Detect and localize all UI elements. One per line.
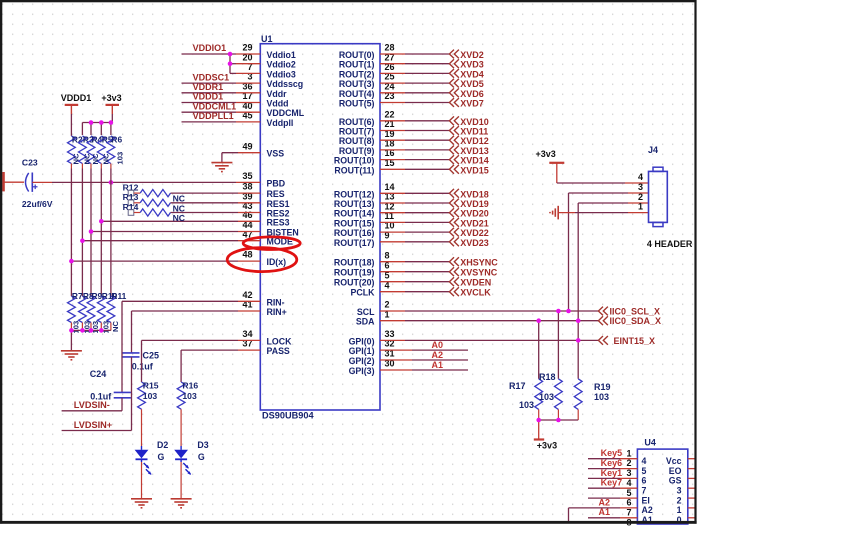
IC U1 DS90UB904 (242, 34, 394, 421)
wire +3v3 rail (111, 114, 113, 123)
svg-text:GPI(1): GPI(1) (349, 346, 375, 356)
svg-text:EO: EO (669, 466, 682, 476)
svg-text:G: G (158, 452, 165, 462)
off-page connector XVD20 (449, 208, 454, 217)
wire XVD23 (380, 241, 405, 243)
resistor R10 (97, 296, 105, 322)
ground at VSS (211, 162, 232, 164)
svg-text:R19: R19 (594, 382, 611, 392)
svg-text:35: 35 (242, 171, 252, 181)
off-page connector XVDEN (449, 277, 454, 286)
resistor R18 (555, 379, 563, 410)
svg-text:14: 14 (385, 182, 395, 192)
svg-text:ROUT(9): ROUT(9) (339, 146, 375, 156)
off-page connector XVD23 (449, 237, 454, 246)
wire BISTEN (91, 231, 238, 233)
ground below D2 (131, 498, 152, 500)
wire VDDR1 to U1 (182, 92, 237, 94)
wire VSS (222, 152, 238, 154)
junction bottom rail (89, 328, 94, 333)
connector J4 (649, 171, 668, 222)
junction rail/R4 (89, 120, 94, 125)
svg-text:A2: A2 (599, 497, 611, 507)
wire VDDCML1 to U1 (182, 111, 237, 113)
off-page connector XVD6 (449, 88, 454, 97)
svg-text:Vddpll: Vddpll (267, 118, 294, 128)
svg-text:GPI(0): GPI(0) (349, 336, 375, 346)
svg-text:VDDD1: VDDD1 (61, 93, 92, 103)
junction bottom rail (80, 328, 85, 333)
junction SDA/J4pin2 (576, 318, 581, 323)
svg-text:ROUT(16): ROUT(16) (334, 228, 375, 238)
svg-text:ROUT(1): ROUT(1) (339, 60, 375, 70)
svg-text:A1: A1 (432, 360, 444, 370)
svg-text:RES1: RES1 (267, 199, 290, 209)
svg-text:RES: RES (267, 189, 285, 199)
svg-text:6: 6 (642, 476, 647, 486)
wire column R6/PBD (110, 169, 112, 297)
svg-text:29: 29 (242, 43, 252, 53)
svg-text:6: 6 (626, 498, 631, 508)
junction MODE/column (80, 238, 85, 243)
svg-text:2: 2 (677, 495, 682, 505)
svg-text:XVD3: XVD3 (460, 60, 484, 70)
junction EINT/R19 (576, 338, 581, 343)
wire XVD7 (380, 102, 405, 104)
svg-text:Vddd: Vddd (267, 99, 289, 109)
svg-text:XVDEN: XVDEN (460, 278, 491, 288)
svg-text:28: 28 (385, 43, 395, 53)
svg-text:1: 1 (677, 505, 682, 515)
resistor R6 (107, 136, 115, 164)
resistor R13 (134, 202, 140, 204)
wire LOCK (238, 339, 260, 341)
svg-text:C24: C24 (90, 369, 107, 379)
svg-text:33: 33 (385, 329, 395, 339)
junction rail/R5 (99, 120, 104, 125)
wire MODE (82, 240, 238, 242)
resistor R16 (177, 382, 185, 409)
resistor R7 (68, 296, 76, 322)
svg-text:VDDD1: VDDD1 (193, 92, 224, 102)
resistor R4 (87, 136, 95, 164)
svg-text:103: 103 (116, 152, 125, 165)
junction VDDIO1/Vddio2 (228, 61, 233, 66)
wire VDDPLL1 to U1 (182, 121, 237, 123)
svg-text:Key5: Key5 (601, 448, 623, 458)
svg-text:XVD15: XVD15 (460, 165, 489, 175)
junction ID(x)/column (69, 259, 74, 264)
wire RIN+ (238, 310, 260, 312)
wire U4 pin5 (588, 497, 620, 499)
svg-text:+3v3: +3v3 (536, 149, 556, 159)
svg-text:XVD5: XVD5 (460, 79, 484, 89)
svg-text:RES3: RES3 (267, 217, 290, 227)
svg-text:IIC0_SDA_X: IIC0_SDA_X (610, 316, 662, 326)
wire column R4/BISTEN (90, 169, 92, 297)
sheet border (0, 0, 697, 524)
svg-text:Vddio3: Vddio3 (267, 69, 296, 79)
svg-text:ID(x): ID(x) (267, 257, 287, 267)
off-page connector XVSYNC (449, 267, 454, 276)
off-page connector XVD2 (449, 50, 454, 59)
svg-text:ROUT(19): ROUT(19) (334, 268, 375, 278)
svg-text:5: 5 (626, 488, 631, 498)
wire A2 feed (569, 507, 621, 509)
svg-text:PASS: PASS (267, 346, 290, 356)
wire J4 pin1 to ground (558, 212, 575, 214)
svg-text:NC: NC (72, 153, 81, 164)
svg-text:46: 46 (242, 210, 252, 220)
svg-text:5: 5 (642, 466, 647, 476)
svg-text:XVD13: XVD13 (460, 146, 489, 156)
terminal pad of R14 (128, 210, 134, 216)
svg-text:ROUT(18): ROUT(18) (334, 258, 375, 268)
wire SDA to R17 (538, 321, 540, 379)
off-page connector XVD12 (449, 136, 454, 145)
svg-text:VDDPLL1: VDDPLL1 (193, 111, 234, 121)
off-page connector XVD19 (449, 199, 454, 208)
power +3v3 symbol (J4) (549, 162, 564, 164)
svg-text:XVD12: XVD12 (460, 136, 489, 146)
wire PBD (32, 181, 52, 183)
svg-text:GPI(2): GPI(2) (349, 356, 375, 366)
wire XVD15 (380, 168, 405, 170)
power +3v3 symbol (below R17) (534, 438, 544, 440)
svg-text:VDDSC1: VDDSC1 (193, 72, 230, 82)
svg-text:103: 103 (143, 391, 158, 401)
svg-text:XVD4: XVD4 (460, 69, 484, 79)
wire XVD5 (380, 82, 405, 84)
svg-text:LOCK: LOCK (267, 336, 293, 346)
svg-text:VDDIO1: VDDIO1 (193, 43, 227, 53)
resistor R12 (134, 192, 140, 194)
svg-text:48: 48 (242, 250, 252, 260)
resistor R9 (87, 296, 95, 322)
svg-text:ROUT(14): ROUT(14) (334, 209, 375, 219)
svg-text:XVD2: XVD2 (460, 50, 484, 60)
svg-text:Vddio2: Vddio2 (267, 60, 296, 70)
svg-text:+3v3: +3v3 (101, 93, 121, 103)
resistor R17 (535, 379, 543, 410)
wire XVD11 (380, 130, 405, 132)
svg-text:ROUT(5): ROUT(5) (339, 99, 375, 109)
wire XVCLK (380, 291, 405, 293)
svg-text:IIC0_SCL_X: IIC0_SCL_X (610, 307, 661, 317)
annotation ellipse around MODE (243, 237, 300, 250)
svg-text:ROUT(20): ROUT(20) (334, 278, 375, 288)
svg-text:XVD18: XVD18 (460, 189, 489, 199)
junction bottom rail (69, 328, 74, 333)
terminal pad of R13 (128, 200, 134, 206)
svg-text:ROUT(6): ROUT(6) (339, 117, 375, 127)
wire PASS (238, 349, 260, 351)
wire GPI A1 (380, 369, 412, 371)
annotation ellipse around ID(x) (227, 248, 297, 272)
wire XVDEN (380, 281, 405, 283)
svg-text:103: 103 (519, 400, 534, 410)
wire SCL to R18 (557, 311, 559, 379)
wire Key7 (588, 487, 620, 489)
IC U4 (626, 437, 687, 527)
ground below R7 (61, 350, 82, 352)
svg-text:3: 3 (677, 486, 682, 496)
wire GPI A0 (380, 349, 412, 351)
junction bottoms/R17 (536, 418, 541, 423)
svg-text:U1: U1 (261, 34, 273, 44)
svg-text:R18: R18 (539, 372, 556, 382)
svg-text:SDA: SDA (356, 317, 375, 327)
resistor R15 (138, 382, 146, 409)
resistor R19 (574, 379, 582, 410)
wire ID(x) (71, 260, 238, 262)
svg-text:XHSYNC: XHSYNC (460, 258, 498, 268)
wire XVD14 (380, 159, 405, 161)
off-page connector IIC0_SCL_X (598, 307, 603, 316)
junction SCL/J4pin3 (566, 309, 571, 314)
wire XVD10 (380, 120, 405, 122)
svg-text:Vddsscg: Vddsscg (267, 79, 304, 89)
wire EINT15_X (380, 339, 405, 341)
svg-text:4: 4 (642, 456, 647, 466)
resistor R3 (79, 136, 87, 164)
off-page connector XVD3 (449, 59, 454, 68)
svg-text:Key1: Key1 (601, 468, 623, 478)
power VDDD1 symbol (65, 104, 79, 106)
junction PBD/R6 column (109, 180, 114, 185)
svg-text:7: 7 (626, 508, 631, 518)
svg-text:A0: A0 (432, 340, 444, 350)
off-page connector XVD22 (449, 228, 454, 237)
svg-text:ROUT(11): ROUT(11) (334, 165, 374, 175)
wire Key5 (588, 458, 620, 460)
off-page connector XVD7 (449, 98, 454, 107)
svg-text:XVD6: XVD6 (460, 89, 484, 99)
wire column R5/RES3 (100, 169, 102, 297)
svg-text:Vddio1: Vddio1 (267, 50, 296, 60)
junction SCL/R18 (556, 309, 561, 314)
svg-text:PCLK: PCLK (351, 288, 376, 298)
svg-text:RIN+: RIN+ (267, 307, 287, 317)
LED D2 (135, 450, 149, 459)
wires U4 right stubs (688, 458, 696, 460)
wire XVD3 (380, 63, 405, 65)
wire XVD13 (380, 149, 405, 151)
resistor R14 (134, 212, 140, 214)
wire column R3/MODE (81, 169, 83, 297)
svg-text:ROUT(10): ROUT(10) (334, 156, 375, 166)
wire column R2/ID(x) (70, 169, 72, 297)
svg-text:SCL: SCL (357, 307, 375, 317)
svg-text:A1: A1 (599, 507, 611, 517)
svg-text:ROUT(13): ROUT(13) (334, 199, 375, 209)
off-page connector XVD10 (449, 116, 454, 125)
wire RES3 (101, 220, 238, 222)
svg-text:3: 3 (626, 468, 631, 478)
svg-text:38: 38 (242, 182, 252, 192)
svg-text:VDDR1: VDDR1 (193, 82, 224, 92)
wire Vddio3 stub (230, 72, 236, 74)
wire Key6 (588, 468, 620, 470)
resistor R5 (97, 136, 105, 164)
junction bottoms/R18 (556, 418, 561, 423)
wire VDDD1 to R2 (70, 114, 72, 136)
wire R13 to U1 (171, 202, 239, 204)
svg-text:XVD10: XVD10 (460, 117, 489, 127)
svg-text:ROUT(12): ROUT(12) (334, 189, 375, 199)
wire A1 feed (588, 517, 620, 519)
svg-text:Vcc: Vcc (666, 456, 682, 466)
junction VDDIO1/Vddio1 (228, 52, 233, 57)
svg-text:A2: A2 (642, 505, 653, 515)
resistor R8 (79, 296, 87, 322)
junction BISTEN/column (89, 229, 94, 234)
svg-text:DS90UB904: DS90UB904 (262, 411, 314, 421)
wire LVDSIN+ (62, 430, 132, 432)
svg-text:U4: U4 (644, 437, 656, 447)
svg-text:R6: R6 (111, 134, 122, 144)
svg-text:R7: R7 (72, 291, 83, 301)
wire +3v3 to J4 pin4 (556, 163, 558, 183)
net stub at left edge (2, 172, 5, 191)
wire LVDSIN- (62, 410, 122, 412)
wire XVD4 (380, 72, 405, 74)
svg-text:VDDCML1: VDDCML1 (193, 101, 237, 111)
svg-text:XVD19: XVD19 (460, 199, 489, 209)
wire XVD21 (380, 221, 405, 223)
svg-text:NC: NC (173, 213, 185, 223)
svg-text:Key7: Key7 (601, 478, 623, 488)
svg-text:103: 103 (182, 391, 197, 401)
off-page connector XVD11 (449, 126, 454, 135)
resistor R11 (107, 296, 115, 322)
svg-text:4 HEADER: 4 HEADER (647, 239, 693, 249)
svg-text:34: 34 (242, 329, 252, 339)
junction rail/R6 (109, 120, 114, 125)
svg-text:Key6: Key6 (601, 458, 623, 468)
wire Key1 (588, 477, 620, 479)
wire C25 to LVDSIN+ (131, 357, 133, 431)
wire VDDIO1 branch vertical (229, 54, 231, 73)
svg-text:0.1uf: 0.1uf (132, 362, 154, 372)
svg-text:EI: EI (642, 495, 650, 505)
resistor R2 (68, 136, 76, 164)
wire VDDIO1 to U1 (182, 53, 237, 55)
svg-text:+3v3: +3v3 (537, 441, 557, 451)
svg-text:1: 1 (638, 201, 643, 211)
svg-text:ROUT(0): ROUT(0) (339, 50, 375, 60)
svg-text:103: 103 (539, 392, 554, 402)
junction bottom rail (99, 328, 104, 333)
svg-text:ROUT(8): ROUT(8) (339, 136, 375, 146)
svg-text:XVD23: XVD23 (460, 238, 489, 248)
svg-text:22uf/6V: 22uf/6V (22, 199, 53, 209)
off-page connector XVD21 (449, 218, 454, 227)
svg-text:G: G (198, 452, 205, 462)
svg-text:NC: NC (102, 153, 111, 164)
svg-text:D2: D2 (157, 440, 168, 450)
svg-text:R17: R17 (509, 381, 526, 391)
wire XHSYNC (380, 261, 405, 263)
wire XVSYNC (380, 271, 405, 273)
wire SCL (380, 310, 405, 312)
wire Vddio2 stub (230, 63, 236, 65)
wire R17-R19 bottoms (539, 419, 579, 421)
svg-text:49: 49 (242, 141, 252, 151)
svg-text:XVD11: XVD11 (460, 127, 488, 137)
svg-text:R16: R16 (182, 380, 198, 390)
svg-text:R11: R11 (111, 291, 126, 301)
wire XVD6 (380, 92, 405, 94)
wire SDA (380, 320, 405, 322)
svg-text:XVD7: XVD7 (460, 99, 484, 109)
svg-text:D3: D3 (197, 440, 208, 450)
power +3v3 symbol (top) (106, 104, 120, 106)
wire XVD12 (380, 139, 405, 141)
svg-text:GPI(3): GPI(3) (349, 366, 375, 376)
capacitor C24 (114, 391, 131, 393)
wire R14 to U1 (171, 212, 239, 214)
wire RIN- (238, 300, 260, 302)
svg-text:XVD22: XVD22 (460, 228, 489, 238)
off-page connector XVD14 (449, 155, 454, 164)
off-page connector XHSYNC (449, 257, 454, 266)
ground at J4 pin1 (557, 206, 559, 220)
off-page connector EINT15_X (598, 336, 603, 345)
wire J4 pin3 to SCL (628, 192, 649, 194)
svg-text:ROUT(7): ROUT(7) (339, 127, 375, 137)
svg-text:R15: R15 (143, 380, 159, 390)
terminal pad of R12 (128, 190, 134, 196)
svg-text:3: 3 (638, 182, 643, 192)
svg-text:LVDSIN+: LVDSIN+ (74, 420, 112, 430)
svg-text:ROUT(2): ROUT(2) (339, 69, 375, 79)
wire XVD22 (380, 231, 405, 233)
svg-text:C25: C25 (143, 351, 160, 361)
junction SDA/R17 (536, 318, 541, 323)
svg-text:XVCLK: XVCLK (460, 288, 491, 298)
capacitor C25 (123, 352, 140, 354)
capacitor C23 (26, 173, 29, 192)
off-page connector XVD5 (449, 79, 454, 88)
off-page connector XVCLK (449, 287, 454, 296)
svg-text:XVD21: XVD21 (460, 218, 489, 228)
svg-text:NC: NC (111, 321, 120, 332)
svg-text:ROUT(3): ROUT(3) (339, 79, 375, 89)
wire XVD18 (380, 192, 405, 194)
svg-text:42: 42 (242, 290, 252, 300)
wire R12 to U1 (171, 192, 239, 194)
off-page connector XVD13 (449, 146, 454, 155)
svg-text:ROUT(15): ROUT(15) (334, 218, 375, 228)
svg-text:103: 103 (594, 392, 609, 402)
off-page connector XVD18 (449, 189, 454, 198)
wire XVD2 (380, 53, 405, 55)
wire R7-R11 bottoms (71, 329, 111, 331)
ground below D3 (171, 498, 192, 500)
svg-text:GS: GS (669, 476, 682, 486)
svg-text:2: 2 (626, 458, 631, 468)
svg-text:8: 8 (385, 250, 390, 260)
wire XVD19 (380, 202, 405, 204)
svg-text:2: 2 (385, 300, 390, 310)
junction RES3/column (99, 219, 104, 224)
wire left edge to C23 (4, 181, 24, 183)
svg-text:4: 4 (626, 478, 631, 488)
svg-text:VSS: VSS (267, 149, 285, 159)
svg-text:J4: J4 (648, 145, 658, 155)
svg-text:ROUT(4): ROUT(4) (339, 89, 375, 99)
